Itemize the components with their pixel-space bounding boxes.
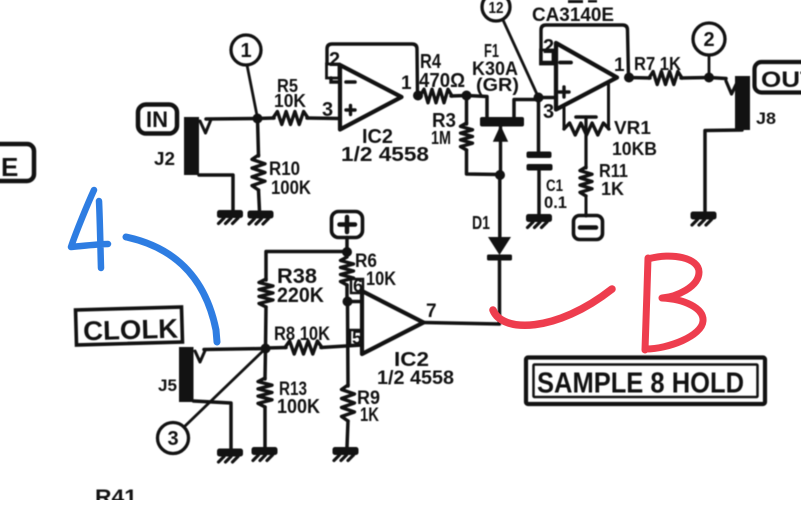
wire: J8 sleeve to ground: [705, 130, 742, 212]
svg-text:D1: D1: [472, 213, 490, 233]
op-amp U2 minus sign: [560, 61, 571, 65]
wire: J5 sleeve to ground: [194, 401, 232, 449]
svg-text:3: 3: [167, 428, 178, 450]
svg-text:100K: 100K: [271, 178, 311, 199]
wire: circle 3 diagonal to node: [184, 349, 266, 428]
label box E (cut at left edge): [0, 144, 34, 182]
svg-text:J8: J8: [756, 109, 776, 128]
capacitor C1 wire top: [537, 98, 541, 153]
feedback loop wire (U2 pin2): [541, 25, 629, 77]
transistor F1 (FET) channel bar: [480, 117, 524, 127]
resistor R10: [258, 119, 259, 157]
annotation: blue curve: [126, 237, 217, 342]
resistor R11: [580, 167, 592, 196]
pin 2 box (U2): [541, 50, 554, 64]
jack J8: [735, 76, 750, 130]
op-amp IC2a minus sign: [346, 80, 355, 84]
op-amp U2 plus sign: [559, 90, 569, 93]
svg-text:470Ω: 470Ω: [419, 70, 465, 92]
ground (C1): [526, 214, 552, 222]
svg-text:CLOLK: CLOLK: [83, 314, 179, 347]
jack J5 tip contact: [195, 350, 206, 363]
wire: + box down to junction: [345, 238, 349, 253]
node: U2 output: [624, 73, 634, 83]
svg-text:1/2 4558: 1/2 4558: [341, 144, 429, 166]
svg-text:3: 3: [543, 101, 554, 123]
op-amp U IC2a triangle: [340, 65, 402, 130]
resistor R4: [420, 89, 452, 103]
svg-text:0.1: 0.1: [544, 193, 567, 212]
wire: circle 1 to input node: [247, 65, 258, 118]
wire: + node into U2: [539, 96, 557, 100]
label box SAMPLE & HOLD: [526, 358, 765, 405]
ground (J5): [217, 449, 243, 457]
svg-text:F1: F1: [484, 41, 499, 61]
svg-text:SAMPLE 8 HOLD: SAMPLE 8 HOLD: [537, 368, 744, 400]
pin 2 box (IC2a): [327, 64, 340, 78]
node: pin6 junction: [343, 297, 353, 307]
jack J2 tip contact: [200, 120, 211, 134]
node: FET gate / R3 / D1 junction: [495, 170, 505, 180]
ground (J8): [691, 212, 717, 220]
terminal circle 1: [231, 35, 261, 65]
svg-text:10KB: 10KB: [612, 139, 657, 159]
node: IC2a output: [413, 91, 423, 101]
svg-text:CA3140E: CA3140E: [532, 5, 614, 26]
node A: R4 / R3 / FET drain junction: [462, 91, 472, 101]
resistor R7: [629, 76, 650, 80]
resistor R3: [465, 96, 469, 125]
svg-text:OUT: OUT: [761, 67, 801, 92]
cut-off label marks at top edge: [568, 0, 583, 3]
svg-text:R11: R11: [599, 161, 628, 181]
svg-text:1: 1: [240, 40, 251, 62]
svg-text:1/2 4558: 1/2 4558: [377, 368, 454, 389]
wire: IN jack tip to input node: [206, 117, 257, 121]
svg-text:2: 2: [329, 49, 340, 71]
svg-text:3: 3: [322, 99, 333, 121]
resistor R6: [341, 257, 354, 285]
wire: circle 12 to opamp + node: [503, 20, 539, 98]
wire: junction down to R9: [346, 302, 350, 387]
annotation: red letter B: [645, 256, 703, 350]
svg-text:220K: 220K: [277, 284, 324, 307]
svg-text:IN: IN: [146, 107, 168, 132]
wire: junction into pin 6: [348, 300, 363, 304]
ground (J2): [217, 210, 243, 218]
resistor R13: [263, 349, 267, 380]
wire: node A to FET drain: [467, 96, 488, 119]
label box OUT (cut at right edge): [755, 62, 801, 93]
svg-text:10K: 10K: [274, 91, 306, 111]
svg-text:2: 2: [543, 36, 554, 58]
negative supply box: [574, 216, 603, 240]
svg-text:1: 1: [614, 55, 625, 76]
pin 5 box+label: [350, 330, 362, 345]
svg-text:1K: 1K: [360, 405, 379, 426]
wire: J5 tip to node: [204, 349, 266, 350]
wire to J8: [709, 78, 726, 79]
svg-text:R41: R41: [95, 486, 137, 500]
positive supply box: [332, 212, 363, 238]
potentiometer VR1: [563, 105, 566, 129]
node: supply junction: [342, 247, 352, 257]
annotation: blue letter A: [71, 190, 108, 268]
resistor R9: [342, 385, 355, 421]
svg-text:R8 10K: R8 10K: [274, 324, 330, 345]
svg-text:2: 2: [703, 29, 714, 51]
capacitor C1: [527, 152, 552, 159]
node: input junction: [253, 114, 263, 124]
FET gate wire with arrow: [499, 126, 502, 175]
resistor R8: [266, 346, 287, 350]
resistor R5: [273, 112, 308, 125]
svg-text:J2: J2: [154, 149, 175, 169]
label box CLOLK: [76, 307, 183, 346]
ground (R10): [248, 211, 274, 219]
svg-text:100K: 100K: [277, 396, 321, 418]
svg-text:1M: 1M: [431, 128, 451, 148]
terminal circle 12: [482, 0, 510, 21]
resistor R38: [259, 279, 273, 307]
wire: FET source to opamp node: [514, 100, 539, 119]
VR1 wiper: [576, 115, 596, 119]
node: output: [704, 73, 714, 83]
svg-text:R7 1K: R7 1K: [634, 54, 681, 74]
wire: circle 2 down to output node: [708, 55, 711, 77]
op-amp U2 CA3140E triangle: [556, 43, 617, 110]
svg-text:J5: J5: [158, 376, 177, 395]
pin 6 box+label: [351, 279, 363, 293]
feedback loop wire (IC2a pin2): [327, 44, 418, 95]
svg-text:10K: 10K: [366, 269, 396, 290]
jack J5: [179, 347, 194, 402]
wire: IC2b output up through D1: [424, 261, 500, 324]
svg-text:1: 1: [401, 73, 412, 94]
terminal circle 3: [158, 423, 189, 454]
ground (R9): [333, 447, 359, 455]
svg-text:E: E: [1, 152, 18, 182]
svg-text:1K: 1K: [601, 179, 624, 199]
op-amp IC2b triangle: [362, 291, 424, 354]
node: clock input junction: [261, 344, 271, 354]
svg-text:(GR): (GR): [476, 75, 519, 95]
label box IN: [138, 105, 177, 134]
wire: J2 sleeve to ground: [199, 175, 233, 211]
svg-text:12: 12: [489, 0, 504, 17]
wire: supply to R38 top: [266, 252, 347, 281]
svg-text:R10: R10: [269, 159, 300, 180]
terminal circle 2: [693, 23, 725, 55]
svg-text:7: 7: [426, 301, 437, 322]
svg-text:VR1: VR1: [614, 118, 651, 138]
ground (R13): [252, 447, 278, 455]
op-amp IC2a plus sign: [346, 108, 355, 111]
jack J8 tip contact: [726, 80, 739, 95]
diode D1: [487, 255, 512, 261]
jack J2: [184, 117, 199, 175]
annotation: red curve: [493, 289, 612, 325]
node: U2 + input: [534, 93, 544, 103]
